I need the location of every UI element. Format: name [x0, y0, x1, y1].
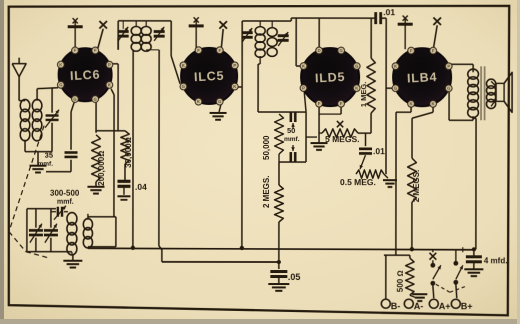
svg-text:500 Ω: 500 Ω	[396, 270, 405, 292]
svg-text:K: K	[197, 99, 200, 104]
svg-text:200,000Ω: 200,000Ω	[97, 151, 106, 186]
svg-text:.04: .04	[135, 182, 147, 192]
svg-text:A+: A+	[439, 301, 451, 311]
svg-text:35: 35	[45, 151, 53, 160]
svg-text:G: G	[218, 99, 221, 104]
svg-text:K: K	[233, 84, 236, 89]
svg-text:50,000: 50,000	[262, 135, 271, 160]
svg-text:G: G	[355, 64, 358, 69]
svg-text:K: K	[410, 101, 413, 106]
svg-text:mmf.: mmf.	[284, 136, 300, 143]
svg-text:.01: .01	[383, 7, 395, 17]
svg-text:G: G	[73, 97, 76, 102]
svg-text:30,000Ω: 30,000Ω	[124, 137, 133, 168]
svg-text:K: K	[182, 63, 185, 68]
svg-text:+: +	[460, 245, 466, 256]
svg-text:.01: .01	[373, 146, 385, 156]
svg-text:ILC6: ILC6	[70, 67, 101, 83]
svg-text:G: G	[447, 86, 450, 91]
svg-text:B-: B-	[391, 301, 401, 311]
svg-text:K: K	[432, 101, 435, 106]
svg-text:300-500: 300-500	[50, 189, 80, 198]
svg-text:F: F	[432, 48, 435, 53]
svg-text:2 MEGS.: 2 MEGS.	[412, 170, 421, 202]
svg-text:F: F	[94, 48, 97, 53]
svg-text:F: F	[197, 48, 200, 53]
svg-text:P: P	[233, 63, 236, 68]
svg-text:F: F	[410, 48, 413, 53]
svg-text:K: K	[59, 62, 62, 67]
svg-text:ILB4: ILB4	[407, 70, 438, 86]
svg-text:4 mfd.: 4 mfd.	[484, 256, 508, 265]
svg-text:G: G	[340, 48, 343, 53]
svg-text:.05: .05	[288, 272, 301, 282]
svg-text:F: F	[340, 101, 343, 106]
svg-text:K: K	[394, 64, 397, 69]
svg-text:P: P	[447, 64, 450, 69]
svg-text:F: F	[74, 48, 77, 53]
svg-text:mmf.: mmf.	[57, 199, 74, 206]
svg-text:2 MEGS.: 2 MEGS.	[262, 176, 271, 208]
svg-text:ILC5: ILC5	[194, 69, 225, 85]
svg-text:K: K	[302, 64, 305, 69]
svg-text:5 MEGS.: 5 MEGS.	[325, 134, 359, 144]
svg-text:0.5 MEG.: 0.5 MEG.	[340, 177, 376, 187]
svg-text:G: G	[59, 82, 62, 87]
svg-text:A-: A-	[414, 301, 424, 311]
svg-text:P: P	[302, 86, 305, 91]
svg-text:F: F	[218, 48, 221, 53]
svg-text:K: K	[108, 82, 111, 87]
svg-text:50: 50	[287, 126, 295, 135]
svg-text:ILD5: ILD5	[315, 70, 346, 86]
svg-text:B+: B+	[461, 301, 473, 311]
svg-text:D: D	[318, 48, 321, 53]
svg-text:mmf.: mmf.	[37, 161, 53, 168]
svg-text:1 MEG.: 1 MEG.	[359, 82, 368, 107]
svg-text:G: G	[182, 84, 185, 89]
svg-text:K: K	[355, 86, 358, 91]
svg-text:P: P	[108, 62, 111, 67]
svg-text:G: G	[94, 97, 97, 102]
svg-text:G: G	[394, 86, 397, 91]
svg-text:F: F	[318, 101, 321, 106]
